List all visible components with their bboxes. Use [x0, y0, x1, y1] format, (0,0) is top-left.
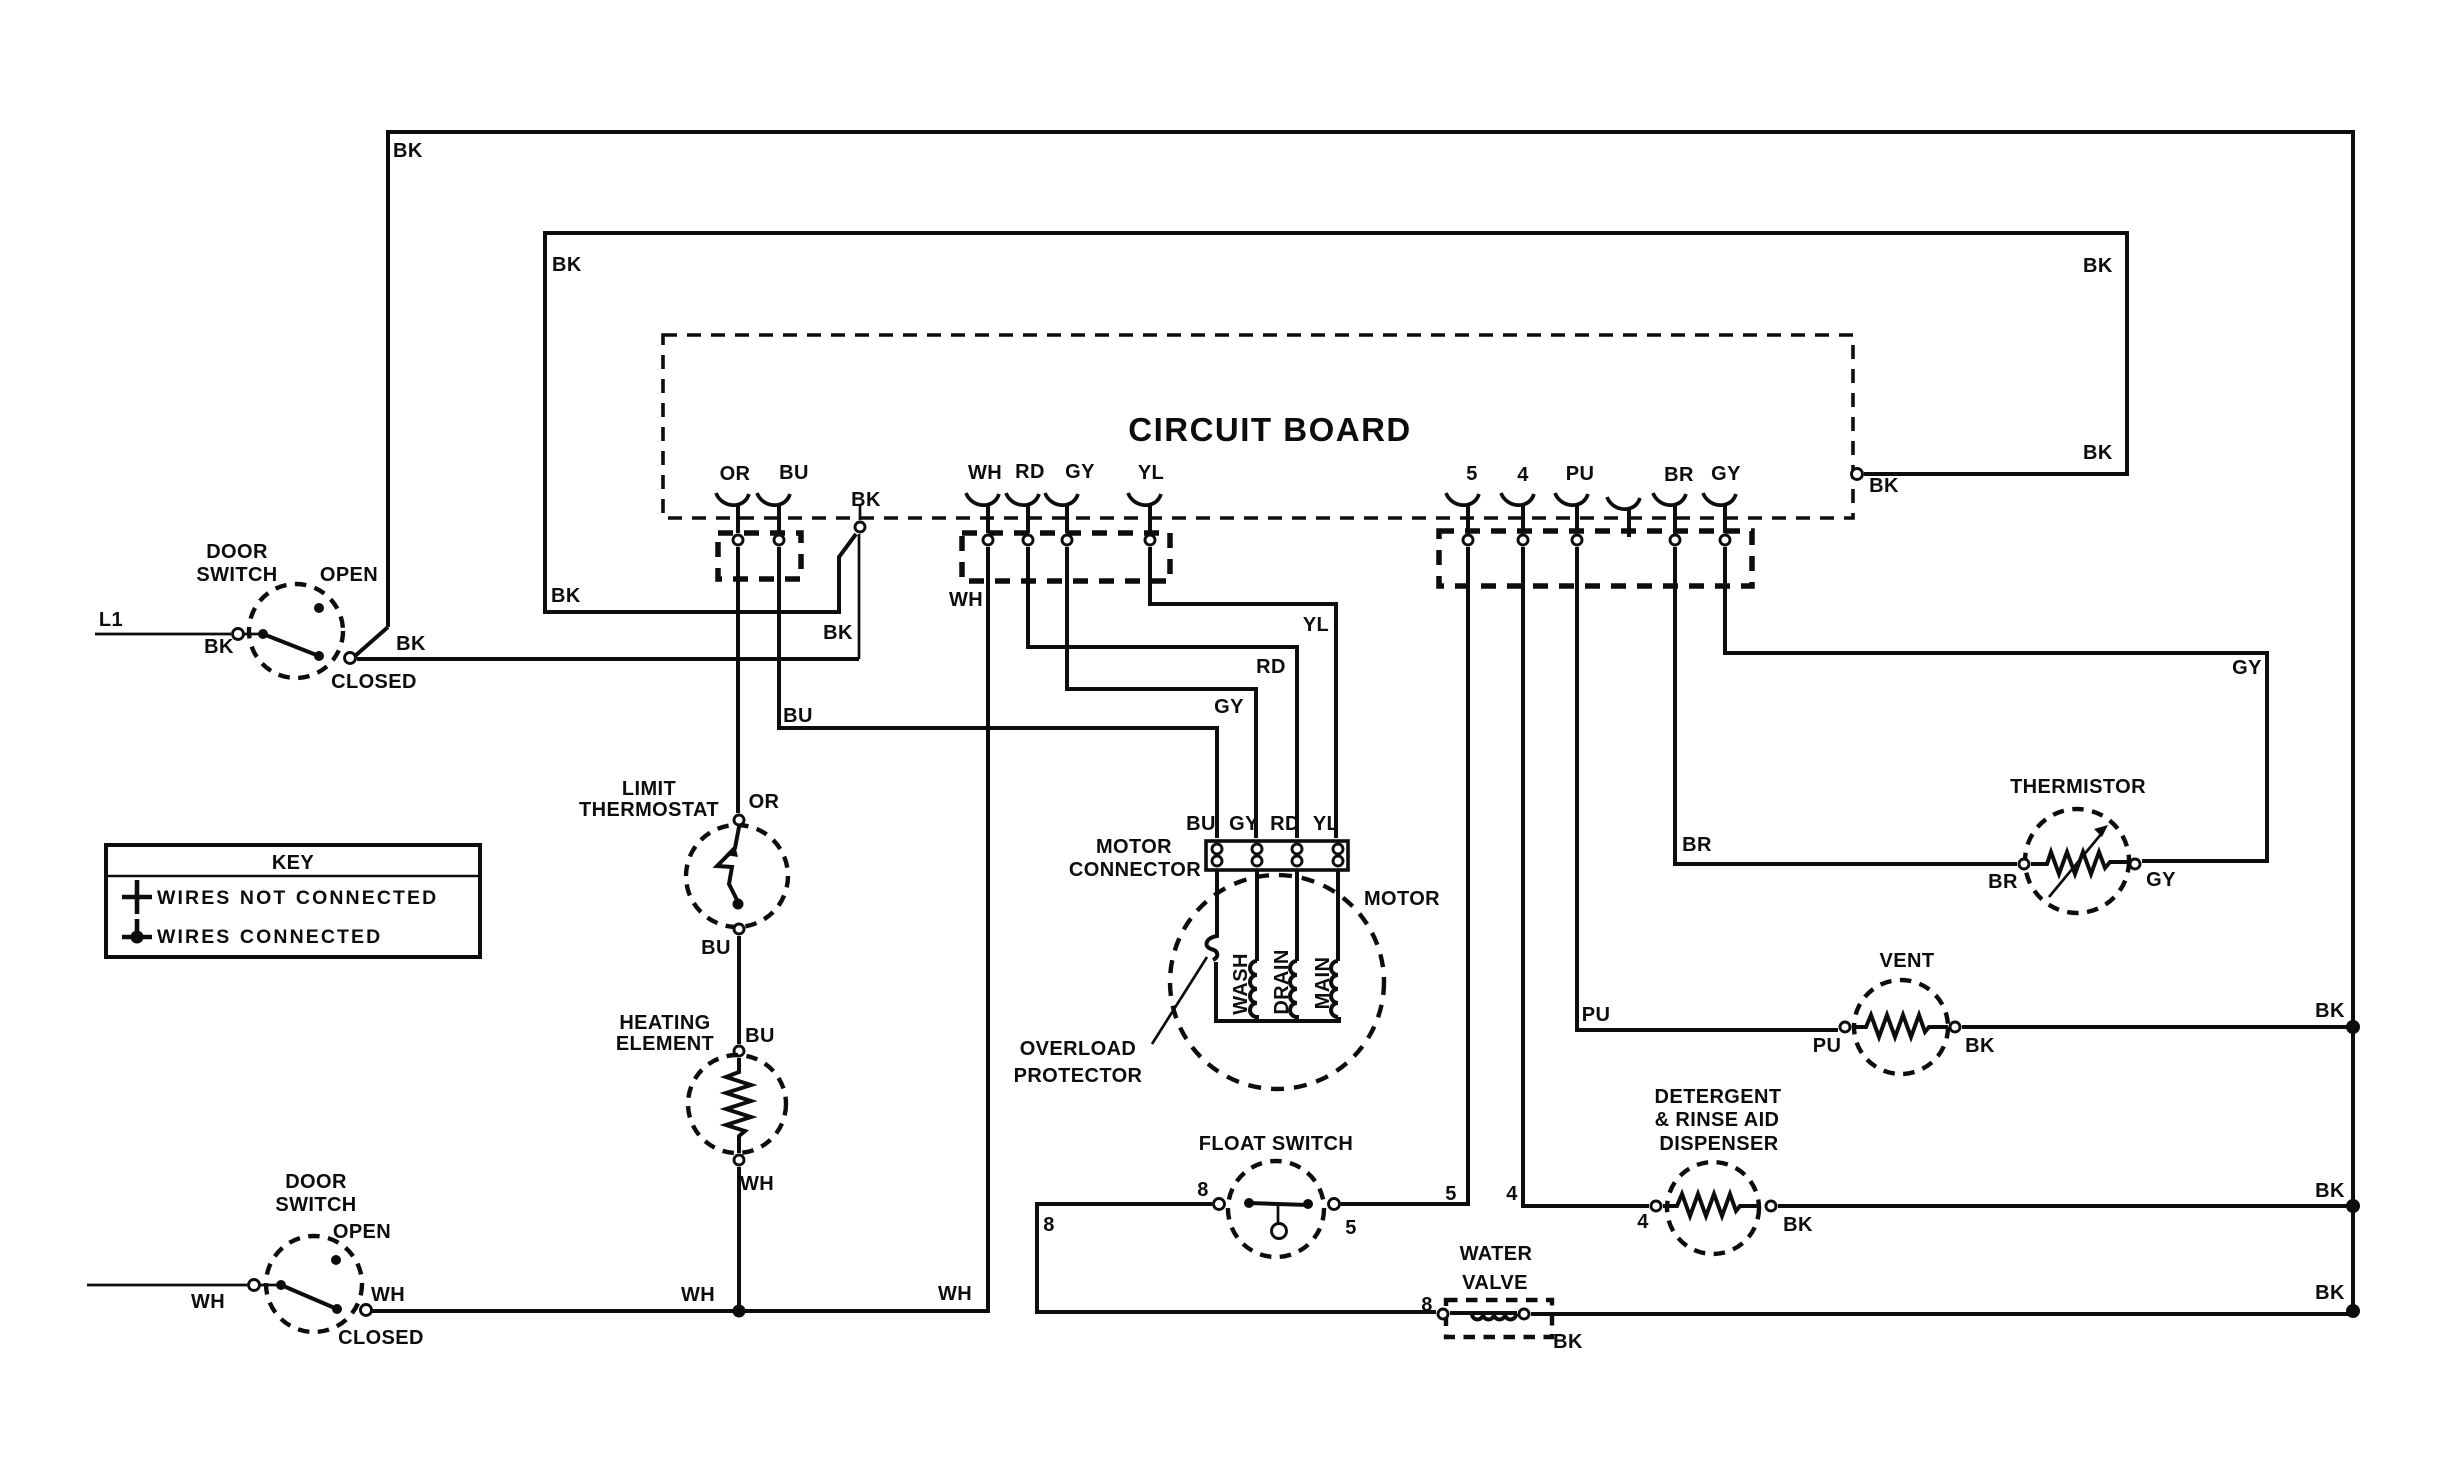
key box: [106, 845, 480, 957]
svg-text:RD: RD: [1270, 813, 1300, 835]
motor winding outline: [1216, 962, 1339, 1021]
float switch right terminal: [1329, 1199, 1340, 1210]
terminal BU: [774, 535, 784, 545]
svg-text:BK: BK: [1783, 1214, 1813, 1236]
float switch pivot dot: [1244, 1198, 1254, 1208]
water valve dashed box: [1446, 1300, 1552, 1337]
pin WH hook: [966, 493, 999, 533]
svg-text:BK: BK: [396, 633, 426, 655]
svg-text:L1: L1: [99, 609, 123, 631]
overload protector hook: [1206, 870, 1217, 960]
svg-text:WIRES CONNECTED: WIRES CONNECTED: [157, 926, 382, 948]
svg-text:DOOR: DOOR: [206, 541, 268, 563]
svg-text:GY: GY: [1711, 463, 1741, 485]
limit thermostat bottom terminal: [734, 924, 744, 934]
terminal BK on circuit board: [855, 522, 865, 532]
svg-text:DOOR: DOOR: [285, 1171, 347, 1193]
limit thermostat contact dot: [733, 899, 744, 910]
terminal BK right of circuit board: [1852, 469, 1863, 480]
svg-text:5: 5: [1466, 463, 1478, 485]
float switch actuator: [1277, 1205, 1280, 1224]
water valve right terminal: [1519, 1309, 1529, 1319]
wire terminal to pivot S2: [260, 1284, 281, 1287]
limit thermostat top terminal: [734, 815, 744, 825]
svg-text:THERMISTOR: THERMISTOR: [2010, 776, 2146, 798]
svg-text:8: 8: [1197, 1179, 1209, 1201]
thermistor right terminal: [2130, 859, 2140, 869]
svg-text:PU: PU: [1582, 1004, 1611, 1026]
wire PU from pin to vent: [1577, 547, 1838, 1030]
svg-text:OVERLOAD: OVERLOAD: [1020, 1038, 1137, 1060]
wire 5 from pin to float switch: [1341, 547, 1468, 1204]
door switch S2 dashed circle: [266, 1236, 362, 1332]
pin BK stub: [859, 505, 862, 520]
svg-text:ELEMENT: ELEMENT: [616, 1033, 714, 1055]
door switch S2 pivot dot: [276, 1280, 286, 1290]
svg-text:CLOSED: CLOSED: [338, 1327, 424, 1349]
svg-text:PU: PU: [1566, 463, 1595, 485]
svg-text:GY: GY: [1229, 813, 1259, 835]
pin BR hook: [1653, 493, 1686, 533]
motor M1 dashed circle: [1170, 875, 1384, 1089]
terminal WH: [983, 535, 993, 545]
svg-text:WH: WH: [191, 1291, 225, 1313]
thermistor dashed circle: [2025, 809, 2129, 913]
overload protector callout line: [1152, 957, 1207, 1044]
float switch left terminal: [1214, 1199, 1225, 1210]
svg-text:OR: OR: [720, 463, 751, 485]
limit thermostat element: [717, 827, 739, 902]
junction dot dispenser BK: [2346, 1199, 2360, 1213]
svg-text:WH: WH: [938, 1283, 972, 1305]
svg-text:VALVE: VALVE: [1462, 1272, 1528, 1294]
connector box WH/RD/GY/YL: [962, 533, 1170, 581]
wire BK vent to outer loop: [1962, 1025, 2353, 1029]
wire L1: [95, 633, 231, 636]
svg-text:VENT: VENT: [1880, 950, 1935, 972]
svg-text:WATER: WATER: [1460, 1243, 1533, 1265]
svg-text:WH: WH: [681, 1284, 715, 1306]
svg-text:BR: BR: [1664, 464, 1694, 486]
wire terminal to pivot S1: [244, 633, 263, 636]
terminal GY: [1062, 535, 1072, 545]
wire BU from pin to motor connector: [779, 547, 1217, 838]
terminal PU: [1572, 535, 1582, 545]
wire into door switch S2: [87, 1284, 247, 1287]
terminal 4: [1518, 535, 1528, 545]
svg-text:BK: BK: [851, 489, 881, 511]
heating element top terminal: [734, 1046, 744, 1056]
svg-text:MAIN: MAIN: [1312, 957, 1334, 1010]
door switch S1 pivot dot: [258, 629, 268, 639]
pin 4 hook: [1501, 493, 1534, 533]
svg-text:WH: WH: [740, 1173, 774, 1195]
thermistor left terminal: [2019, 859, 2029, 869]
svg-text:DETERGENT: DETERGENT: [1655, 1086, 1782, 1108]
door switch S2 closed contact dot: [332, 1304, 342, 1314]
svg-text:WH: WH: [371, 1284, 405, 1306]
svg-text:KEY: KEY: [272, 852, 315, 874]
svg-text:CLOSED: CLOSED: [331, 671, 417, 693]
wire RD from pin to motor connector: [1028, 547, 1297, 838]
wire 4 from pin to dispenser: [1523, 547, 1649, 1206]
wire BK from door switch to BK drop: [357, 657, 859, 661]
svg-text:5: 5: [1445, 1183, 1457, 1205]
svg-text:BK: BK: [2083, 442, 2113, 464]
svg-text:SWITCH: SWITCH: [196, 564, 277, 586]
door switch S1 closed contact dot: [314, 651, 324, 661]
svg-text:CONNECTOR: CONNECTOR: [1069, 859, 1201, 881]
pin BU hook: [757, 493, 790, 533]
svg-text:GY: GY: [2146, 869, 2176, 891]
water valve left terminal: [1438, 1309, 1448, 1319]
pin OR hook: [716, 493, 749, 533]
svg-text:WIRES NOT CONNECTED: WIRES NOT CONNECTED: [157, 887, 438, 909]
svg-text:PU: PU: [1813, 1035, 1842, 1057]
svg-text:& RINSE AID: & RINSE AID: [1655, 1109, 1780, 1131]
svg-text:BR: BR: [1682, 834, 1712, 856]
svg-text:YL: YL: [1303, 614, 1329, 636]
vent right terminal: [1950, 1022, 1960, 1032]
pin PU hook: [1555, 493, 1588, 533]
svg-text:MOTOR: MOTOR: [1096, 836, 1172, 858]
svg-text:WASH: WASH: [1230, 953, 1252, 1015]
heating element dashed circle: [688, 1055, 786, 1153]
wire WH heating element to bottom: [737, 1167, 741, 1311]
svg-text:4: 4: [1506, 1183, 1518, 1205]
svg-text:CIRCUIT BOARD: CIRCUIT BOARD: [1128, 411, 1411, 448]
svg-text:4: 4: [1517, 464, 1529, 486]
pin 5 hook: [1446, 493, 1479, 533]
svg-text:BU: BU: [783, 705, 813, 727]
svg-text:8: 8: [1421, 1294, 1433, 1316]
pin YL hook: [1128, 493, 1161, 533]
svg-text:BK: BK: [393, 140, 423, 162]
svg-text:WH: WH: [949, 589, 983, 611]
door switch S2 right terminal: [361, 1305, 372, 1316]
svg-text:BU: BU: [1186, 813, 1216, 835]
water valve coil: [1450, 1313, 1517, 1320]
float switch dashed circle: [1228, 1161, 1324, 1257]
motor connector box: [1206, 841, 1348, 870]
float switch arm: [1249, 1203, 1308, 1205]
wire 8 from float switch around to water valve: [1037, 1204, 1436, 1312]
svg-text:HEATING: HEATING: [619, 1012, 710, 1034]
terminal YL: [1145, 535, 1155, 545]
svg-text:BK: BK: [2083, 255, 2113, 277]
heating element bottom terminal: [734, 1155, 744, 1165]
wire BR from pin to thermistor: [1675, 547, 2017, 864]
terminal GY2: [1720, 535, 1730, 545]
svg-text:BU: BU: [745, 1025, 775, 1047]
dispenser dashed circle: [1667, 1162, 1759, 1254]
svg-text:BK: BK: [823, 622, 853, 644]
svg-text:LIMIT: LIMIT: [622, 778, 676, 800]
heating element resistor: [726, 1058, 751, 1153]
wire BU thermostat to heating element: [737, 936, 741, 1044]
junction dot valve BK: [2346, 1304, 2360, 1318]
thermistor resistor: [2031, 852, 2128, 874]
svg-text:BK: BK: [2315, 1180, 2345, 1202]
svg-text:SWITCH: SWITCH: [275, 1194, 356, 1216]
wire WH from pin down and across bottom: [366, 547, 988, 1311]
svg-text:5: 5: [1345, 1217, 1357, 1239]
terminal 5: [1463, 535, 1473, 545]
wire OR from pin to limit thermostat: [736, 547, 740, 813]
svg-text:FLOAT SWITCH: FLOAT SWITCH: [1199, 1133, 1353, 1155]
svg-text:BK: BK: [1965, 1035, 1995, 1057]
wire: outer BK loop (top and right side): [388, 132, 2353, 1308]
float switch right contact dot: [1303, 1199, 1313, 1209]
door switch S1 arm: [263, 634, 319, 656]
svg-text:BK: BK: [1553, 1331, 1583, 1353]
svg-text:MOTOR: MOTOR: [1364, 888, 1440, 910]
wire: inner BK loop: [545, 233, 2127, 612]
door switch S1 terminal right: [345, 653, 356, 664]
svg-text:8: 8: [1043, 1214, 1055, 1236]
vent left terminal: [1840, 1022, 1850, 1032]
pin GY hook: [1045, 493, 1078, 533]
motor main winding: [1336, 870, 1340, 961]
vent dashed circle: [1854, 980, 1948, 1074]
svg-text:BU: BU: [701, 937, 731, 959]
svg-text:GY: GY: [1065, 461, 1095, 483]
svg-text:OPEN: OPEN: [333, 1221, 391, 1243]
wire BK valve to outer loop: [1531, 1308, 2353, 1314]
svg-text:PROTECTOR: PROTECTOR: [1014, 1065, 1143, 1087]
connector box OR/BU: [718, 533, 801, 579]
junction dot vent BK: [2346, 1020, 2360, 1034]
door switch S2 open contact dot: [331, 1255, 341, 1265]
terminal OR: [733, 535, 743, 545]
connector box 5/4/PU/BR/GY: [1439, 531, 1752, 586]
wire GY from pin to motor connector: [1067, 547, 1256, 838]
dispenser resistor: [1663, 1194, 1759, 1216]
svg-text:BK: BK: [2315, 1282, 2345, 1304]
wire BK dispenser to outer loop: [1778, 1204, 2353, 1208]
vent resistor: [1852, 1015, 1948, 1037]
pin RD hook: [1006, 493, 1039, 533]
pin GY2 hook: [1703, 493, 1736, 533]
svg-text:GY: GY: [2232, 657, 2262, 679]
motor drain winding: [1295, 870, 1299, 961]
terminal RD: [1023, 535, 1033, 545]
svg-text:BU: BU: [779, 462, 809, 484]
door switch S1 open contact dot: [314, 603, 324, 613]
terminal BR: [1670, 535, 1680, 545]
wire YL from pin to motor connector: [1150, 547, 1336, 838]
motor wash winding: [1255, 870, 1259, 961]
door switch S1 dashed circle: [249, 584, 343, 678]
dispenser right terminal: [1766, 1201, 1776, 1211]
svg-text:OR: OR: [749, 791, 780, 813]
svg-text:4: 4: [1637, 1211, 1649, 1233]
dispenser left terminal: [1651, 1201, 1661, 1211]
motor connector contacts: [1212, 844, 1343, 866]
door switch S2 left terminal: [249, 1280, 260, 1291]
door switch S1 terminal left: [233, 629, 244, 640]
svg-text:BK: BK: [1869, 475, 1899, 497]
svg-text:RD: RD: [1015, 461, 1045, 483]
svg-text:BK: BK: [2315, 1000, 2345, 1022]
svg-text:YL: YL: [1138, 462, 1164, 484]
svg-text:WH: WH: [968, 462, 1002, 484]
svg-text:OPEN: OPEN: [320, 564, 378, 586]
wire: outer BK diagonal into door switch: [355, 627, 388, 656]
svg-text:THERMOSTAT: THERMOSTAT: [579, 799, 719, 821]
svg-text:BK: BK: [552, 254, 582, 276]
svg-text:BK: BK: [204, 636, 234, 658]
wire: BK drop from pin to door switch wire: [858, 534, 861, 659]
wire GY from pin around to thermistor right: [1725, 547, 2267, 861]
svg-text:YL: YL: [1313, 813, 1339, 835]
svg-text:DRAIN: DRAIN: [1271, 949, 1293, 1014]
svg-text:BR: BR: [1988, 871, 2018, 893]
limit thermostat dashed circle: [686, 825, 788, 927]
svg-text:DISPENSER: DISPENSER: [1659, 1133, 1778, 1155]
svg-text:BK: BK: [551, 585, 581, 607]
door switch S2 arm: [281, 1285, 337, 1309]
circuit board U1 dashed outline: [663, 335, 1853, 518]
thermistor arrow: [2049, 833, 2102, 897]
svg-text:RD: RD: [1256, 656, 1286, 678]
pin NC hook: [1607, 497, 1640, 537]
svg-text:GY: GY: [1214, 696, 1244, 718]
junction dot WH heating element: [733, 1305, 746, 1318]
